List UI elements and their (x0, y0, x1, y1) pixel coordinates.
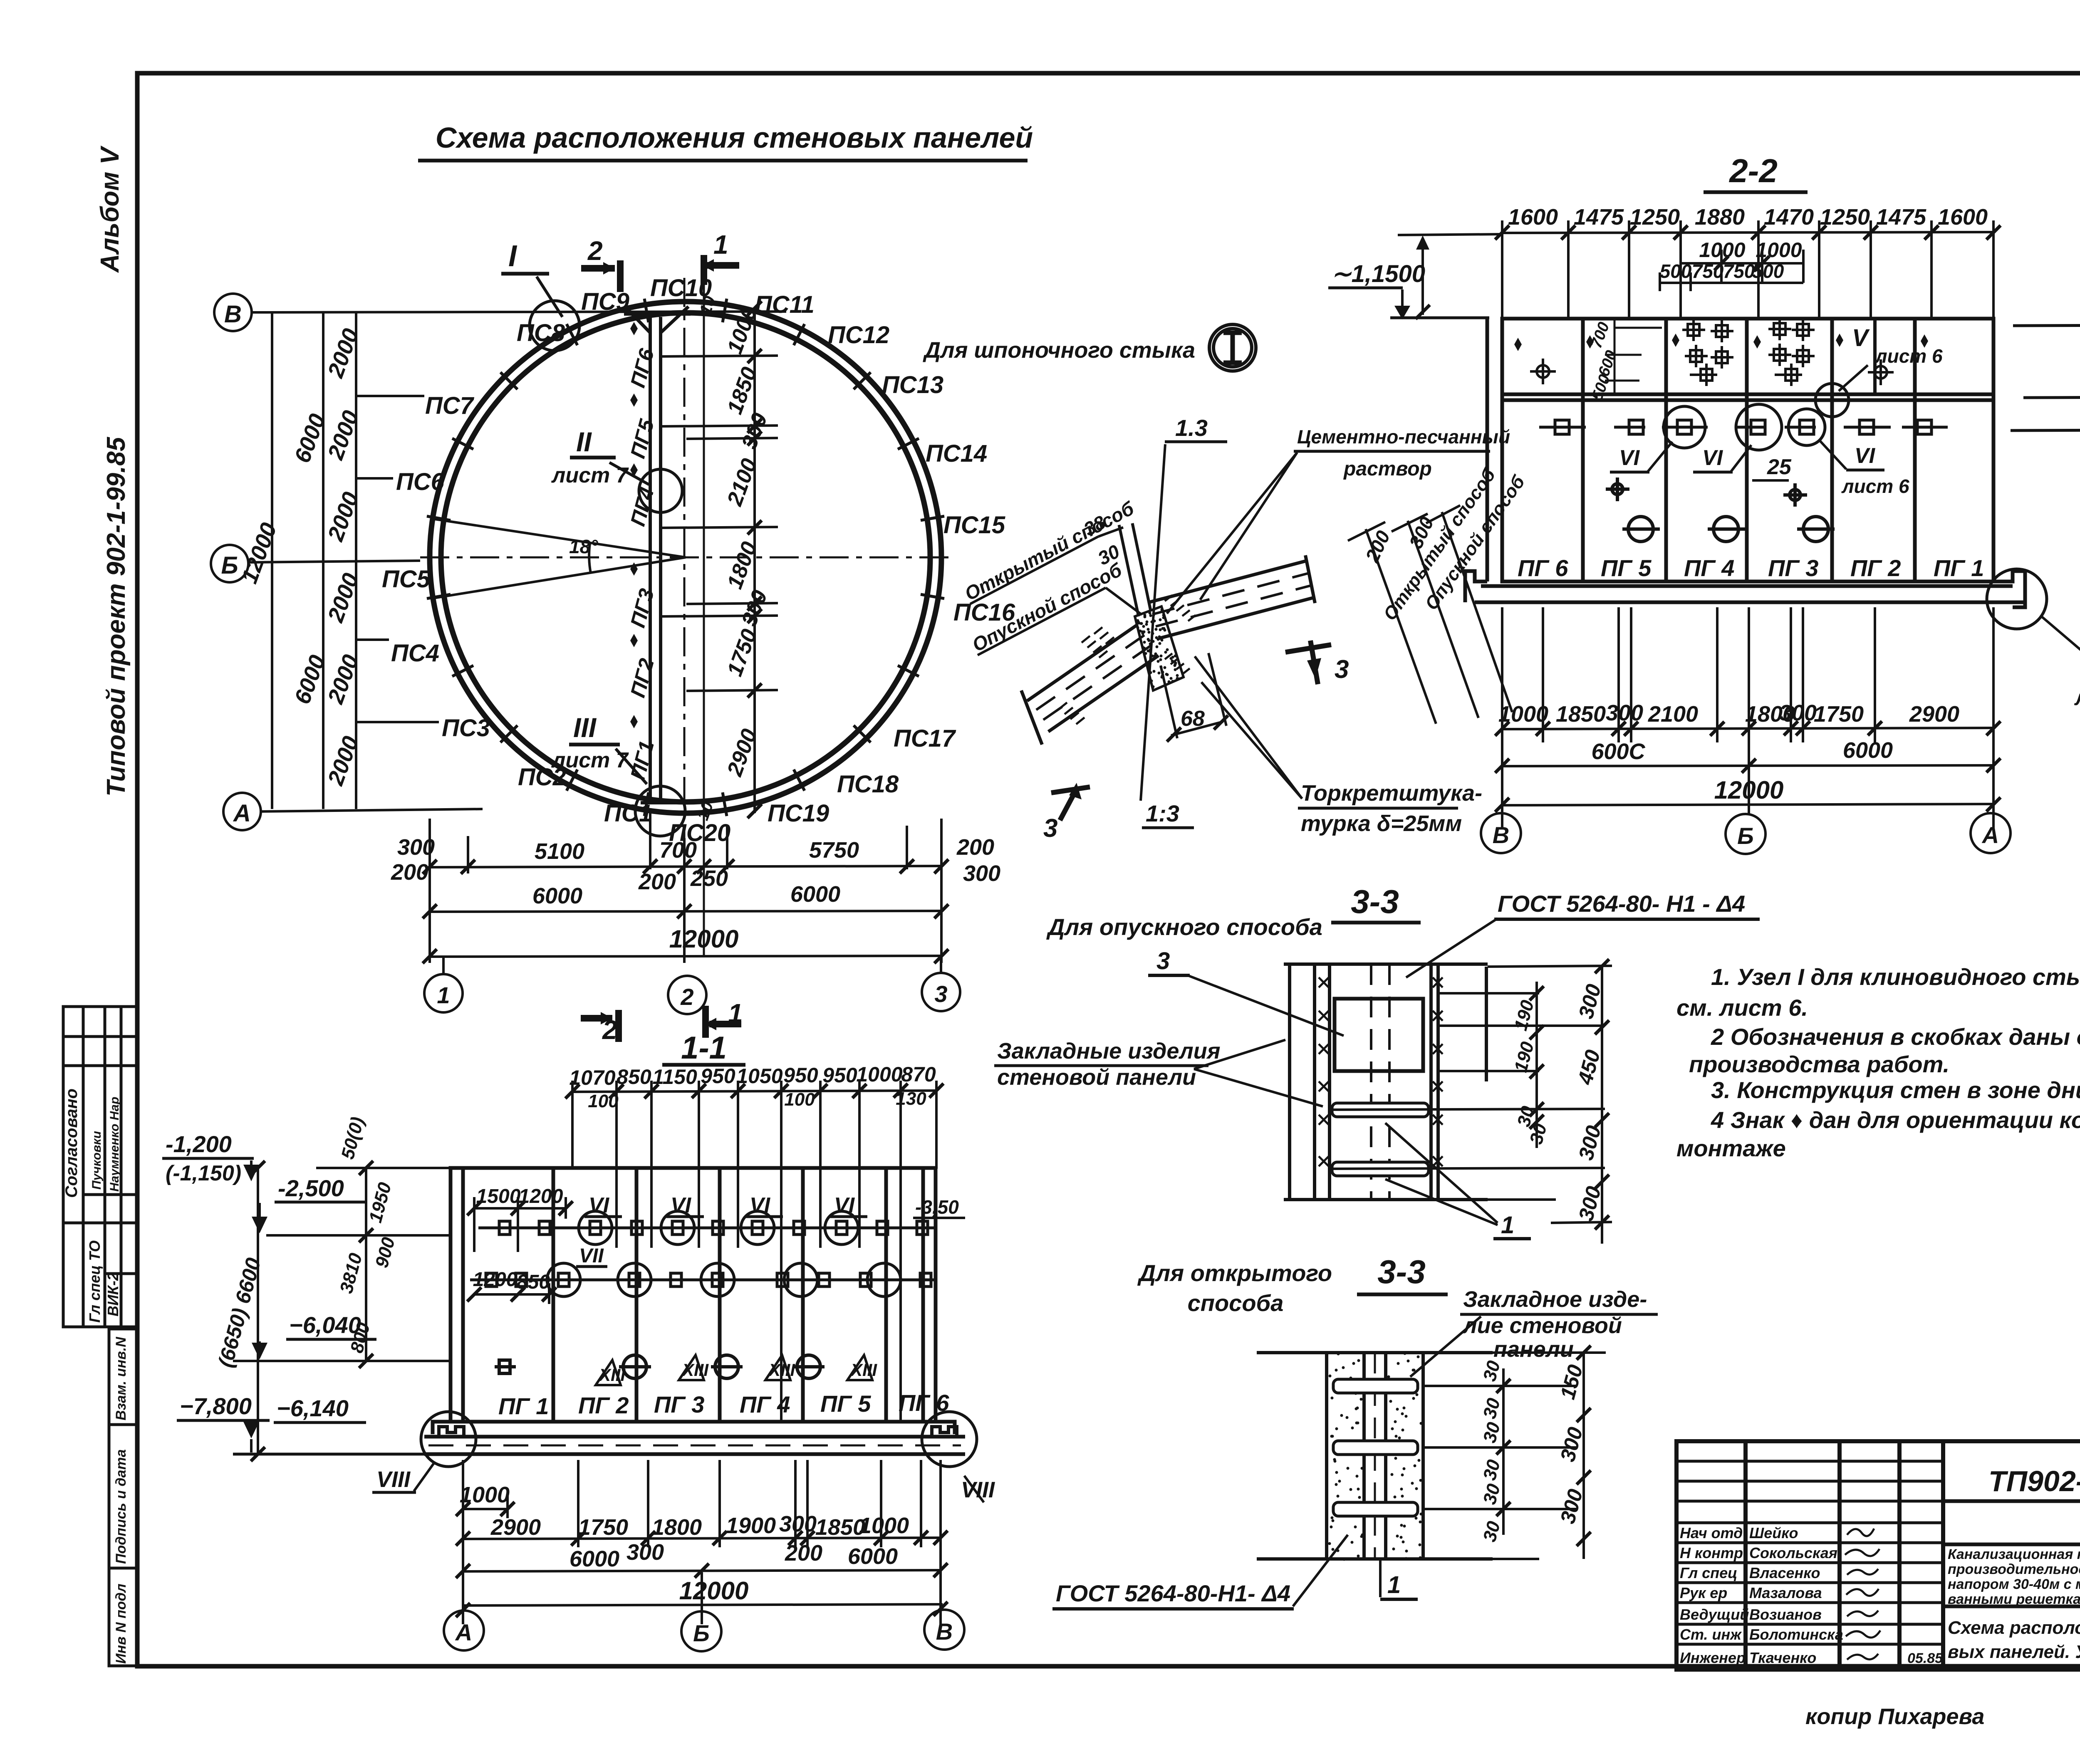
svg-text:Типовой проект 902-1-99.85: Типовой проект 902-1-99.85 (102, 436, 131, 797)
svg-text:ВИК-2: ВИК-2 (104, 1272, 121, 1316)
svg-text:1. Узел I для клиновидного: 1. Узел I для клиновидного стыка стеновы… (1711, 964, 2080, 990)
svg-text:2: 2 (587, 236, 603, 266)
svg-text:−6,040: −6,040 (289, 1312, 361, 1338)
svg-text:1800: 1800 (652, 1515, 702, 1540)
svg-text:-2,500: -2,500 (278, 1175, 344, 1201)
svg-text:6000: 6000 (1843, 738, 1893, 763)
svg-text:600C: 600C (1591, 739, 1645, 764)
svg-text:Схема расположения стено-: Схема расположения стено- (1948, 1618, 2080, 1638)
svg-text:Взам. инв.N: Взам. инв.N (113, 1336, 129, 1420)
svg-text:1470: 1470 (1764, 205, 1814, 230)
svg-text:1050: 1050 (736, 1064, 782, 1088)
svg-text:монтаже: монтаже (1676, 1135, 1786, 1161)
svg-text:1000: 1000 (1756, 238, 1802, 262)
svg-text:12000: 12000 (679, 1577, 749, 1605)
svg-text:2100: 2100 (1648, 702, 1698, 727)
svg-text:ПГ 6: ПГ 6 (899, 1390, 949, 1416)
svg-text:1900: 1900 (726, 1513, 776, 1538)
svg-text:(-1,150): (-1,150) (166, 1161, 241, 1185)
svg-text:ПГ 5: ПГ 5 (1601, 555, 1652, 581)
svg-text:1880: 1880 (1695, 205, 1745, 230)
svg-text:Гл спец ТО: Гл спец ТО (86, 1240, 103, 1323)
svg-text:2-2: 2-2 (1728, 152, 1778, 189)
svg-text:1000: 1000 (1699, 238, 1745, 262)
svg-text:VI: VI (834, 1193, 855, 1217)
svg-text:5100: 5100 (535, 839, 584, 864)
svg-text:950: 950 (701, 1064, 735, 1088)
svg-text:В: В (224, 301, 242, 328)
svg-text:Для шпоночного стыка: Для шпоночного стыка (923, 338, 1195, 363)
svg-text:лие стеновой: лие стеновой (1462, 1313, 1622, 1338)
svg-text:Для открытого: Для открытого (1137, 1260, 1332, 1286)
svg-text:3: 3 (1043, 814, 1057, 843)
svg-text:500: 500 (1752, 260, 1784, 282)
svg-text:6000: 6000 (570, 1546, 619, 1571)
svg-text:ПС14: ПС14 (926, 440, 987, 467)
svg-text:1850: 1850 (815, 1515, 865, 1540)
svg-text:1: 1 (728, 998, 743, 1028)
svg-text:Б: Б (1737, 823, 1754, 849)
svg-text:870: 870 (901, 1063, 936, 1086)
svg-text:панели: панели (1493, 1337, 1574, 1362)
svg-text:3-3: 3-3 (1351, 883, 1399, 920)
svg-text:лист 8: лист 8 (2074, 686, 2080, 710)
svg-text:3-3: 3-3 (1377, 1253, 1426, 1290)
svg-text:1150: 1150 (652, 1065, 697, 1089)
svg-text:1600: 1600 (1938, 205, 1988, 230)
svg-text:1600: 1600 (1508, 205, 1558, 230)
svg-text:200: 200 (956, 835, 994, 860)
svg-text:турка δ=25мм: турка δ=25мм (1301, 811, 1462, 836)
svg-text:Инв N подл: Инв N подл (113, 1583, 129, 1664)
svg-text:6000: 6000 (532, 883, 582, 908)
svg-text:−6,140: −6,140 (277, 1395, 349, 1421)
svg-text:850: 850 (617, 1065, 651, 1089)
svg-text:2 Обозначения в скобках даны: 2 Обозначения в скобках даны для открыто… (1711, 1024, 2080, 1050)
svg-text:способа: способа (1188, 1290, 1284, 1316)
svg-text:ПС12: ПС12 (828, 322, 889, 349)
svg-text:950: 950 (822, 1064, 857, 1087)
svg-text:1475: 1475 (1876, 205, 1926, 230)
svg-text:∼1,1500: ∼1,1500 (1331, 260, 1425, 287)
svg-text:300: 300 (1779, 700, 1817, 725)
svg-text:ПС4: ПС4 (391, 640, 439, 667)
svg-text:1250: 1250 (1630, 205, 1680, 230)
svg-text:Н контр: Н контр (1680, 1544, 1743, 1561)
svg-text:-1,200: -1,200 (166, 1131, 232, 1157)
svg-text:250: 250 (690, 866, 728, 891)
svg-text:3: 3 (1156, 948, 1170, 975)
svg-text:VI: VI (671, 1193, 692, 1217)
svg-text:300: 300 (626, 1540, 664, 1565)
svg-text:ПГ 4: ПГ 4 (740, 1391, 790, 1418)
svg-text:Возианов: Возианов (1749, 1606, 1822, 1623)
svg-text:5750: 5750 (809, 838, 859, 863)
svg-text:12000: 12000 (1714, 776, 1784, 804)
svg-text:ПС9: ПС9 (581, 288, 629, 315)
svg-text:1500: 1500 (476, 1185, 521, 1207)
svg-text:2900: 2900 (1909, 702, 1959, 727)
svg-text:VI: VI (750, 1193, 771, 1217)
svg-text:ванными решетками: ванными решетками (1948, 1591, 2080, 1607)
svg-text:ТП902-1-99. 85 - КЖ: ТП902-1-99. 85 - КЖ (1988, 1465, 2080, 1497)
svg-text:3: 3 (1335, 655, 1349, 684)
svg-text:см. лист 6.: см. лист 6. (1676, 995, 1808, 1021)
svg-text:производства работ.: производства работ. (1689, 1051, 1949, 1077)
svg-text:100: 100 (588, 1091, 619, 1111)
svg-text:В: В (936, 1618, 953, 1645)
svg-text:750: 750 (1723, 260, 1755, 282)
svg-text:1000: 1000 (859, 1513, 909, 1538)
svg-text:ПС1: ПС1 (604, 800, 652, 827)
svg-text:ПГ 4: ПГ 4 (1684, 555, 1734, 581)
svg-text:950: 950 (783, 1064, 818, 1087)
svg-text:200: 200 (638, 869, 676, 894)
svg-text:1750: 1750 (1814, 702, 1864, 727)
svg-text:А: А (233, 800, 251, 827)
svg-text:Нач отд: Нач отд (1680, 1524, 1743, 1541)
svg-text:1.3: 1.3 (1175, 415, 1208, 441)
svg-text:ГОСТ 5264-80-Н1- Δ4: ГОСТ 5264-80-Н1- Δ4 (1056, 1580, 1290, 1606)
svg-text:ГОСТ 5264-80- Н1 - Δ4: ГОСТ 5264-80- Н1 - Δ4 (1498, 891, 1745, 917)
svg-text:ПС15: ПС15 (943, 512, 1005, 539)
svg-text:4 Знак ♦ дан для ориентации: 4 Знак ♦ дан для ориентации конструкции … (1711, 1107, 2080, 1133)
svg-text:25: 25 (1767, 455, 1792, 479)
svg-text:лист 6: лист 6 (1841, 475, 1909, 497)
svg-text:лист 6: лист 6 (1874, 345, 1943, 367)
svg-text:V: V (1852, 324, 1870, 351)
svg-text:Болотинска: Болотинска (1749, 1626, 1843, 1643)
svg-text:Согласовано: Согласовано (62, 1089, 81, 1198)
svg-text:стеновой панели: стеновой панели (997, 1065, 1196, 1090)
svg-text:200: 200 (785, 1541, 822, 1566)
svg-text:VI: VI (589, 1193, 610, 1217)
svg-text:6000: 6000 (848, 1544, 898, 1569)
svg-text:1:3: 1:3 (1146, 800, 1179, 826)
svg-text:ПС3: ПС3 (442, 715, 490, 742)
svg-text:1-1: 1-1 (681, 1030, 727, 1066)
svg-text:Власенко: Власенко (1749, 1564, 1820, 1581)
svg-text:Схема расположения стеновых: Схема расположения стеновых панелей (436, 121, 1033, 154)
svg-text:II: II (576, 426, 592, 457)
svg-text:Ст. инж: Ст. инж (1680, 1626, 1742, 1643)
svg-text:ПС8: ПС8 (517, 319, 565, 346)
svg-text:Подпись и дата: Подпись и дата (113, 1449, 129, 1564)
svg-text:1475: 1475 (1574, 205, 1624, 230)
svg-text:ПС18: ПС18 (837, 771, 899, 798)
svg-text:130: 130 (896, 1089, 926, 1109)
svg-text:1: 1 (1501, 1212, 1514, 1239)
svg-text:ПС13: ПС13 (882, 371, 943, 398)
svg-text:1000: 1000 (460, 1482, 510, 1507)
svg-text:1070: 1070 (569, 1066, 615, 1089)
svg-text:VI: VI (1855, 444, 1876, 468)
svg-text:300: 300 (1606, 700, 1643, 725)
svg-text:1: 1 (713, 230, 728, 260)
svg-text:Ведущий: Ведущий (1680, 1606, 1749, 1623)
svg-text:Инженер: Инженер (1680, 1649, 1746, 1666)
svg-text:напором 30-40м с механизиро-: напором 30-40м с механизиро- (1948, 1576, 2080, 1592)
svg-text:ПС11: ПС11 (755, 291, 815, 318)
svg-text:Торкретштука-: Торкретштука- (1301, 781, 1482, 806)
svg-text:ПГ 5: ПГ 5 (820, 1390, 871, 1417)
svg-text:1250: 1250 (1820, 205, 1870, 230)
svg-text:700: 700 (659, 838, 697, 863)
svg-text:1000: 1000 (856, 1063, 902, 1086)
svg-text:200: 200 (391, 860, 428, 885)
svg-text:ПГ 3: ПГ 3 (1768, 555, 1818, 581)
svg-text:А: А (1981, 822, 1999, 848)
svg-text:ПГ 6: ПГ 6 (1518, 555, 1568, 581)
svg-text:05.85: 05.85 (1907, 1650, 1943, 1666)
svg-text:I: I (508, 240, 518, 273)
svg-text:Пучковки: Пучковки (90, 1131, 104, 1190)
svg-text:Цементно-песчанный: Цементно-песчанный (1297, 426, 1510, 448)
svg-text:VII: VII (579, 1245, 604, 1267)
svg-text:300: 300 (779, 1512, 817, 1536)
svg-text:1200: 1200 (519, 1185, 563, 1207)
svg-text:ПС19: ПС19 (768, 800, 829, 827)
svg-text:Б: Б (221, 552, 238, 579)
svg-text:раствор: раствор (1343, 458, 1432, 480)
svg-text:−7,800: −7,800 (180, 1393, 252, 1419)
svg-text:1750: 1750 (578, 1515, 628, 1540)
svg-text:копир Пихарева: копир Пихарева (1805, 1704, 1984, 1729)
svg-text:В: В (1493, 822, 1509, 848)
svg-text:ПС6: ПС6 (396, 468, 445, 495)
svg-text:Шейко: Шейко (1749, 1524, 1798, 1541)
svg-text:Альбом V: Альбом V (96, 145, 124, 273)
svg-text:ПГ 3: ПГ 3 (654, 1391, 704, 1418)
svg-text:18°: 18° (569, 536, 598, 557)
svg-text:1000: 1000 (1498, 702, 1548, 727)
svg-text:А: А (455, 1619, 472, 1645)
svg-text:ПГ 1: ПГ 1 (1934, 555, 1984, 581)
svg-text:Мазалова: Мазалова (1749, 1584, 1822, 1601)
svg-text:750: 750 (1692, 260, 1724, 282)
svg-text:ПС7: ПС7 (425, 392, 475, 419)
svg-text:6000: 6000 (790, 882, 840, 907)
svg-text:вых панелей. Узел I: вых панелей. Узел I (1948, 1642, 2080, 1662)
svg-text:2900: 2900 (490, 1515, 541, 1540)
svg-text:1: 1 (1387, 1571, 1401, 1598)
svg-text:Рук ер: Рук ер (1680, 1584, 1727, 1601)
svg-text:ПС17: ПС17 (894, 725, 956, 752)
svg-text:Закладные изделия: Закладные изделия (997, 1039, 1221, 1064)
svg-text:12000: 12000 (669, 925, 739, 953)
svg-text:ПГ 1: ПГ 1 (498, 1393, 549, 1419)
svg-text:3: 3 (934, 981, 947, 1007)
svg-text:500: 500 (1660, 260, 1692, 282)
svg-text:300: 300 (963, 861, 1000, 886)
svg-text:VIII: VIII (376, 1467, 411, 1492)
svg-text:3. Конструкция стен в зоне: 3. Конструкция стен в зоне днища показан… (1711, 1077, 2080, 1103)
svg-text:III: III (573, 712, 597, 743)
svg-text:2: 2 (602, 1015, 617, 1045)
svg-text:100: 100 (784, 1089, 815, 1110)
svg-text:1: 1 (437, 982, 450, 1008)
svg-text:VI: VI (1702, 446, 1723, 470)
svg-text:ПС5: ПС5 (382, 566, 431, 593)
svg-text:300: 300 (397, 835, 435, 860)
svg-text:ПГ 2: ПГ 2 (578, 1392, 629, 1418)
svg-text:1850: 1850 (1556, 702, 1606, 727)
svg-text:Б: Б (693, 1620, 710, 1646)
svg-text:Наумненко Нар: Наумненко Нар (108, 1097, 121, 1192)
svg-text:2: 2 (680, 984, 693, 1010)
svg-text:VI: VI (1619, 446, 1640, 470)
svg-text:Сокольская: Сокольская (1749, 1544, 1837, 1561)
svg-text:Гл спец: Гл спец (1680, 1564, 1737, 1581)
svg-text:Ткаченко: Ткаченко (1749, 1649, 1816, 1666)
svg-text:Для опускного способа: Для опускного способа (1046, 914, 1322, 940)
svg-text:ПГ 2: ПГ 2 (1850, 555, 1901, 581)
svg-text:VIII: VIII (961, 1477, 995, 1502)
svg-text:Закладное изде-: Закладное изде- (1463, 1287, 1647, 1312)
svg-text:Канализационная насосная станц: Канализационная насосная станция (1948, 1546, 2080, 1562)
svg-text:-3,50: -3,50 (915, 1196, 959, 1218)
svg-text:производительностью 400-2000м3: производительностью 400-2000м3/ч (1948, 1561, 2080, 1577)
